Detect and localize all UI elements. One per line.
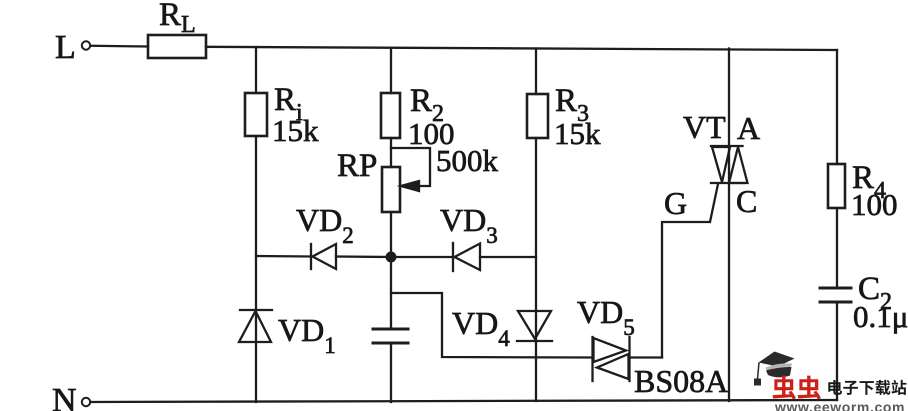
svg-text:500k: 500k [436, 143, 499, 178]
diode VD2 [311, 244, 336, 269]
wire VD3 to R3 column [480, 256, 536, 258]
svg-text:15k: 15k [554, 116, 601, 151]
svg-text:VT: VT [683, 109, 726, 145]
svg-text:A: A [737, 110, 760, 146]
svg-text:VD2: VD2 [296, 202, 354, 248]
diac VD5 [593, 337, 630, 381]
wire RP wiper loop [391, 148, 430, 186]
svg-text:VD4: VD4 [452, 305, 510, 351]
wire R2 to RP [390, 138, 392, 167]
triac VT [711, 146, 748, 183]
diode VD1 [239, 310, 272, 342]
watermark red chongchong [773, 376, 821, 400]
wire node to VD3 [391, 256, 453, 258]
diode VD3 [453, 243, 480, 271]
wire C2 bottom [836, 302, 838, 400]
wire R2 drop [390, 48, 392, 93]
svg-text:www.eeworm.com: www.eeworm.com [774, 399, 905, 411]
wire bottom bus [91, 400, 838, 402]
wire elbow to VD5 [391, 293, 592, 358]
watermark site name dianzi xiazaizhan [828, 380, 906, 395]
wire gate riser [662, 184, 718, 358]
wire R4 to C2 [836, 208, 838, 288]
node L terminal [82, 41, 90, 49]
wire RP bottom column [390, 212, 392, 329]
svg-text:L: L [55, 29, 76, 66]
resistor Ri [245, 93, 267, 136]
capacitor C1 [373, 329, 408, 343]
wire R3 drop [535, 49, 537, 95]
wire Ri column [255, 136, 257, 402]
svg-text:G: G [664, 185, 687, 221]
svg-text:N: N [52, 382, 77, 411]
resistor R4 [828, 164, 845, 208]
svg-text:VD3: VD3 [440, 202, 498, 248]
wire R3 column [535, 138, 537, 401]
resistor R2 [381, 93, 400, 138]
wire R4 drop [836, 50, 838, 164]
wire VT column [728, 49, 730, 402]
node junction dot [387, 253, 396, 262]
RP wiper arrow [401, 181, 419, 191]
wire C1 bottom [390, 343, 392, 402]
svg-text:VD1: VD1 [278, 312, 336, 358]
wire L to RL [91, 45, 149, 48]
svg-text:RP: RP [337, 148, 377, 184]
svg-text:15k: 15k [272, 113, 319, 148]
svg-text:RL: RL [159, 0, 196, 38]
wire top bus [206, 47, 837, 50]
wire VD5 to gate riser [630, 356, 663, 358]
wire Ri drop [255, 47, 257, 93]
svg-text:100: 100 [851, 187, 898, 222]
svg-text:VD5: VD5 [577, 294, 635, 340]
potentiometer RP [382, 167, 400, 212]
node N terminal [82, 398, 90, 406]
resistor R3 [527, 94, 548, 138]
resistor RL [148, 35, 206, 58]
svg-text:BS08A: BS08A [634, 363, 728, 399]
svg-text:C: C [736, 183, 757, 219]
diode VD4 [517, 311, 552, 341]
watermark graduation cap [754, 352, 795, 386]
svg-text:0.1μ: 0.1μ [853, 299, 908, 334]
wire VD2 to node [336, 255, 391, 258]
capacitor C2 [820, 288, 851, 302]
wire mid bus left [256, 255, 311, 258]
